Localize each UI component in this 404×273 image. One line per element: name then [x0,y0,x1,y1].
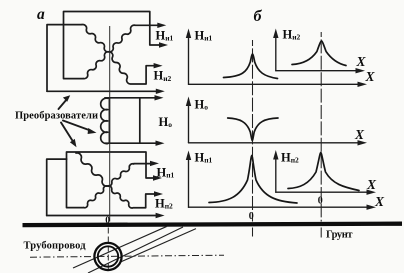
curve Hп2 [288,153,359,191]
curve Hи2 [292,41,346,66]
axis Hо [188,103,190,143]
pipeline hatch diagonal 2 [88,227,183,273]
arrowheads of horizontal axes [358,82,368,87]
svg-text:а: а [37,6,45,23]
svg-text:X: X [356,54,367,69]
pipeline inner circle [98,246,118,266]
transducer T1 outer loop (rect A) [64,12,161,79]
arrow from A' right edge [153,175,162,180]
svg-text:X: X [366,177,377,192]
svg-text:б: б [254,8,263,25]
arrow Hи2 head [154,63,163,68]
dashed zero line x=252.5 [252,40,254,222]
pipeline outer circle [94,243,121,270]
vertical zero line left [109,26,111,222]
axis Hп2 [275,157,277,193]
arrow Hи1 head [157,23,166,28]
arrow Hп2 head [154,191,163,196]
svg-text:Грунт: Грунт [326,229,353,240]
curve Hп1 [209,156,297,204]
arrow Hп1 head [150,161,159,166]
T1 winding X diagonal 2 [83,25,158,79]
pointer arrow to coil [63,121,89,130]
transducer T2 outer loop (rect A') [67,152,155,208]
pipeline hatch diagonal 3 [121,229,197,262]
T1 winding X diagonal 1 [82,24,155,84]
svg-text:X: X [374,194,385,209]
curve Hи1 [224,54,278,79]
pipeline hatch diagonal 1 [73,226,167,268]
axis Hи1 [188,35,190,84]
pointer arrow to T1 [59,99,67,109]
svg-text:0: 0 [318,196,323,207]
T2 winding X diagonal 2 [84,164,152,208]
compensation coil arcs [101,98,108,144]
dashed line x=321.2 (ground position) [320,32,322,222]
arrow to Hи2-row from rect A right edge [159,42,168,47]
pointer arrow to T2 [61,123,73,141]
coil bottom wire arrow [105,142,157,144]
coil box right edge [139,98,141,143]
T2 winding X diagonal 1 [76,153,155,208]
transducer T2 inner loop (rect B') [47,159,67,215]
svg-text:0: 0 [249,211,254,222]
transducer T1 inner loop (rect B) [47,25,82,92]
axis Hи2 [275,35,277,71]
svg-text:Преобразователи: Преобразователи [15,110,98,121]
svg-text:Трубопровод: Трубопровод [24,241,87,252]
arrowheads of vertical axes [186,29,191,39]
ground surface thick line [23,224,403,225]
pipeline axis dash-dot [30,255,224,257]
T1 bottom line arrow [47,90,157,92]
axis Hп1 [188,157,190,207]
compensation coil top wire arrow [105,97,156,99]
x-axis of part a [47,215,157,217]
svg-text:X: X [354,127,365,142]
svg-text:X: X [365,69,376,84]
coil box left edge [108,98,110,143]
curve Hо [228,118,278,141]
